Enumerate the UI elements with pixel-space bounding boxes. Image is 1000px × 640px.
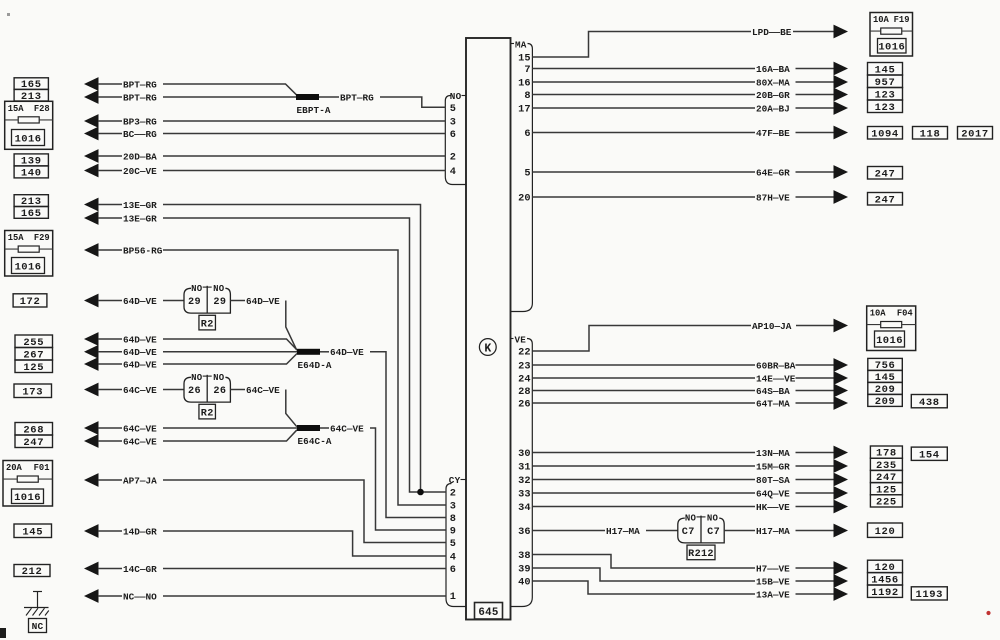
svg-text:BP3—RG: BP3—RG [123,116,157,127]
svg-text:225: 225 [876,497,897,509]
svg-text:64C—VE: 64C—VE [246,385,280,396]
svg-text:64D—VE: 64D—VE [123,359,157,370]
svg-text:3: 3 [450,501,456,513]
svg-text:20C—VE: 20C—VE [123,166,157,177]
svg-text:5: 5 [524,168,530,180]
svg-text:MA: MA [515,39,527,50]
svg-text:39: 39 [518,564,530,576]
svg-text:17: 17 [518,104,530,116]
svg-text:NO: NO [213,373,225,383]
svg-text:22: 22 [518,347,530,359]
svg-text:154: 154 [919,449,940,461]
svg-text:247: 247 [875,194,896,206]
svg-text:64C—VE: 64C—VE [123,423,157,434]
svg-text:20A: 20A [6,463,23,473]
svg-text:212: 212 [22,566,43,578]
svg-text:E64C-A: E64C-A [298,436,332,447]
svg-text:1016: 1016 [15,261,42,273]
svg-text:64S—BA: 64S—BA [756,386,790,397]
svg-text:165: 165 [21,208,42,220]
svg-text:4: 4 [450,166,456,178]
svg-text:AP10—JA: AP10—JA [752,321,792,332]
svg-text:NO: NO [213,284,225,294]
svg-text:F04: F04 [897,309,914,319]
svg-text:87H—VE: 87H—VE [756,192,790,203]
svg-text:16: 16 [518,78,530,90]
svg-text:F28: F28 [34,104,50,114]
svg-text:AP7—JA: AP7—JA [123,475,157,486]
svg-text:C7: C7 [707,527,720,538]
svg-text:LPD——BE: LPD——BE [752,27,792,38]
svg-text:64E—GR: 64E—GR [756,167,790,178]
svg-text:34: 34 [518,502,530,514]
svg-text:8: 8 [450,513,456,525]
svg-text:30: 30 [518,448,530,460]
svg-text:80T—SA: 80T—SA [756,475,790,486]
svg-text:140: 140 [21,168,42,180]
svg-text:64D—VE: 64D—VE [123,347,157,358]
svg-text:64D—VE: 64D—VE [330,347,364,358]
svg-text:BPT—RG: BPT—RG [340,92,374,103]
svg-text:BP56-RG: BP56-RG [123,245,163,256]
svg-text:7: 7 [524,64,530,76]
svg-text:20A—BJ: 20A—BJ [756,103,790,114]
svg-text:BC——RG: BC——RG [123,129,157,140]
svg-text:NO: NO [191,284,203,294]
svg-text:2017: 2017 [961,128,989,140]
svg-text:26: 26 [518,399,530,411]
svg-text:4: 4 [450,552,456,564]
svg-text:1016: 1016 [878,42,905,54]
svg-text:16A—BA: 16A—BA [756,64,790,75]
svg-text:6: 6 [450,129,456,141]
svg-text:15A: 15A [8,233,25,243]
svg-text:28: 28 [518,386,530,398]
svg-text:47F—BE: 47F—BE [756,128,790,139]
svg-text:H7——VE: H7——VE [756,563,790,574]
svg-text:64T—MA: 64T—MA [756,398,790,409]
svg-text:15: 15 [518,53,530,65]
svg-text:209: 209 [875,396,896,408]
svg-text:120: 120 [875,526,896,538]
svg-text:F19: F19 [894,15,910,25]
svg-text:80X—MA: 80X—MA [756,77,790,88]
svg-text:1: 1 [450,591,456,603]
svg-text:13A—VE: 13A—VE [756,589,790,600]
svg-text:15B—VE: 15B—VE [756,576,790,587]
svg-text:2: 2 [450,152,456,164]
svg-text:NC: NC [32,621,44,632]
svg-text:BPT—RG: BPT—RG [123,92,157,103]
svg-text:HK——VE: HK——VE [756,502,790,513]
svg-text:NO: NO [450,91,462,102]
svg-text:8: 8 [524,90,530,102]
svg-text:1016: 1016 [15,133,42,145]
svg-text:10A: 10A [870,309,887,319]
svg-text:F29: F29 [34,233,50,243]
svg-text:NO: NO [707,514,719,524]
svg-text:64C—VE: 64C—VE [123,436,157,447]
svg-text:64C—VE: 64C—VE [123,385,157,396]
svg-text:5: 5 [450,103,456,115]
svg-text:145: 145 [22,526,43,538]
svg-text:40: 40 [518,577,530,589]
svg-text:13N—MA: 13N—MA [756,448,790,459]
svg-text:R212: R212 [688,549,714,560]
svg-text:VE: VE [515,334,527,345]
svg-text:15A: 15A [8,104,25,114]
svg-text:20B—GR: 20B—GR [756,90,790,101]
svg-text:13E—GR: 13E—GR [123,200,157,211]
svg-text:9: 9 [450,526,456,538]
svg-text:1193: 1193 [915,589,943,601]
svg-text:64D—VE: 64D—VE [123,334,157,345]
svg-text:10A: 10A [873,15,890,25]
svg-text:H17—MA: H17—MA [756,526,790,537]
svg-text:C7: C7 [682,527,695,538]
svg-text:123: 123 [875,102,896,114]
svg-text:173: 173 [22,386,43,398]
svg-text:1192: 1192 [871,587,899,599]
svg-text:32: 32 [518,475,530,487]
svg-text:645: 645 [478,607,498,619]
svg-text:EBPT-A: EBPT-A [297,105,331,116]
svg-text:14D—GR: 14D—GR [123,526,157,537]
svg-text:29: 29 [213,297,226,308]
svg-text:K: K [484,342,491,355]
svg-text:1016: 1016 [14,492,41,504]
svg-text:33: 33 [518,489,530,501]
svg-text:36: 36 [518,526,530,538]
svg-text:38: 38 [518,550,530,562]
svg-text:1094: 1094 [871,128,899,140]
svg-text:172: 172 [20,296,41,308]
svg-text:64D—VE: 64D—VE [123,296,157,307]
svg-text:5: 5 [450,538,456,550]
svg-text:26: 26 [213,386,226,397]
svg-text:64D—VE: 64D—VE [246,296,280,307]
svg-text:125: 125 [23,362,44,374]
svg-text:26: 26 [188,386,201,397]
svg-text:2: 2 [450,488,456,500]
svg-text:F01: F01 [34,463,50,473]
svg-text:6: 6 [524,128,530,140]
svg-text:15M—GR: 15M—GR [756,461,790,472]
svg-text:438: 438 [919,397,940,409]
svg-text:NO: NO [685,514,697,524]
svg-text:118: 118 [920,128,941,140]
svg-text:13E—GR: 13E—GR [123,213,157,224]
svg-text:E64D-A: E64D-A [298,360,332,371]
svg-text:23: 23 [518,361,530,373]
svg-text:NO: NO [191,373,203,383]
svg-text:R2: R2 [201,319,214,330]
svg-text:14E——VE: 14E——VE [756,373,796,384]
svg-text:CY: CY [449,475,461,486]
svg-text:NC——NO: NC——NO [123,591,157,602]
svg-text:14C—GR: 14C—GR [123,564,157,575]
svg-text:H17—MA: H17—MA [606,526,640,537]
svg-text:64C—VE: 64C—VE [330,423,364,434]
svg-text:BPT—RG: BPT—RG [123,79,157,90]
svg-text:247: 247 [23,437,44,449]
svg-text:R2: R2 [201,408,214,419]
svg-text:31: 31 [518,462,530,474]
svg-text:29: 29 [188,297,201,308]
svg-text:20: 20 [518,193,530,205]
svg-text:1016: 1016 [876,335,903,347]
svg-text:20D—BA: 20D—BA [123,151,157,162]
svg-text:60BR—BA: 60BR—BA [756,360,796,371]
svg-text:6: 6 [450,564,456,576]
svg-text:24: 24 [518,374,530,386]
svg-text:3: 3 [450,117,456,129]
svg-text:64Q—VE: 64Q—VE [756,488,790,499]
svg-text:247: 247 [875,168,896,180]
